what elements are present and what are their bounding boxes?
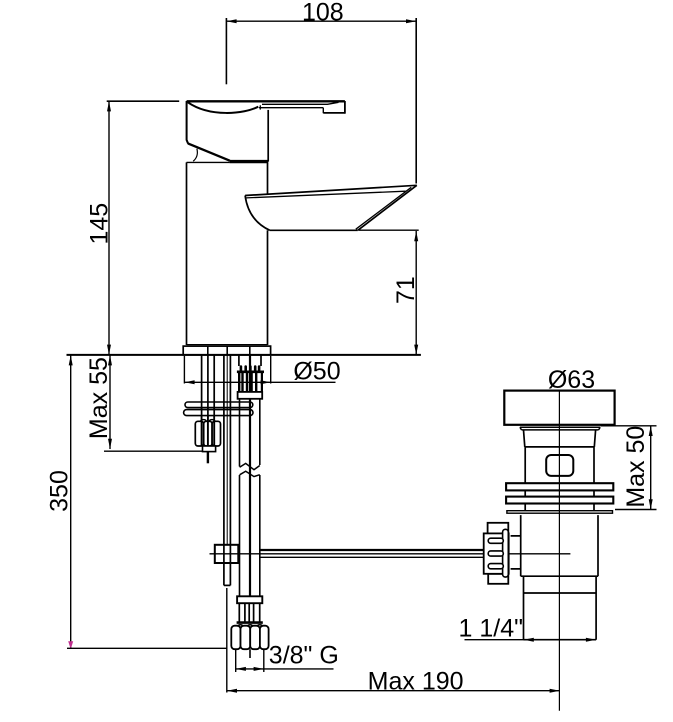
dimension diameter 50 right extension [270,356,272,384]
horseshoe washer capsule 2 [184,410,253,416]
dimension 3/8 G left extension [235,650,237,672]
pop-up vertical rod right line [229,355,231,544]
spout left curve [245,196,270,231]
mounting hex nut lobes [195,421,203,446]
faucet handle lever underside near line [259,107,323,109]
faucet handle lever tip tick [322,108,324,114]
rod A re-draw through washers [201,402,203,421]
thread shank bars [238,373,240,391]
knurled nut top rect [488,523,509,534]
svg-text:145: 145 [86,203,114,245]
spout bottom extension line [359,229,419,231]
hose break zigzag upper [240,463,260,469]
dimension 350 bottom arrow (magenta) [68,641,73,649]
hose braid lines [238,603,240,622]
faucet base flange [183,346,270,355]
svg-text:108: 108 [302,0,344,27]
faucet handle lever tip bottom [323,112,345,114]
supply hose stud upper lines [238,355,240,366]
faucet body left edge [186,162,188,345]
dimension 145 bottom arrow [107,345,111,355]
dimension 1 1/4 left arrow [524,638,534,642]
drain plate 1 [506,483,613,490]
dimension 108 right arrow [406,19,416,23]
knurled nut right capsule [503,529,509,577]
svg-text:1 1/4": 1 1/4" [459,614,523,642]
spout inner top line [246,191,405,198]
drain body edges between plates 2-3 [525,504,594,511]
spout inner diagonal [356,187,412,229]
dimension 108 right extension line [415,18,417,184]
rod lines through nut [201,422,203,446]
faucet handle lever top edge [187,100,345,102]
mounting hex nut lobe bumps [201,420,207,422]
dimension Max 50 bottom arrow [649,499,653,509]
faucet body top thin line [187,161,230,163]
lever underside tick at cap [259,105,261,109]
supply hose right line (with break gap) [259,399,261,465]
faucet handle lever underside far line [262,102,339,104]
hose break zigzag lower [240,471,260,476]
drain tailpipe [524,576,597,640]
knurled nut slot 1 [488,538,503,543]
base flange tick rod A [207,346,209,355]
pop-up rod lower segment [223,563,225,585]
hose hex nut lobes [231,626,240,650]
dimension Max 55 line [109,356,111,450]
dimension Max 50 line [650,426,652,510]
faucet handle cap concave curve [188,102,258,113]
collar below nut [203,446,216,452]
faucet body junction thick line [230,160,269,163]
dimension 3/8 G right arrow [254,667,264,671]
supply hose bold center line [249,355,251,596]
svg-text:Max 55: Max 55 [85,357,113,439]
horizontal pivot rod top line [260,549,483,551]
dimension diameter 50 left extension [183,356,185,384]
dimension 1 1/4 leader line [465,639,524,641]
drain lower body [521,515,598,576]
horseshoe washer capsule 1 [185,402,253,408]
dimension 145 top extension line [107,100,180,102]
dimension diameter 50 left arrow [184,380,194,384]
drain upper body [525,447,594,483]
knurled nut bottom rect [488,574,508,584]
dimension diameter 50 line [184,381,335,383]
dimension 1 1/4 right arrow [586,638,596,642]
hose ferrule [237,596,262,603]
rod A tail [207,452,209,464]
hose nut stub [249,649,251,658]
drain center line [558,391,560,711]
drain stem to knurled nut [511,536,521,569]
dimension 108 left extension line [225,18,227,84]
spout body fill [245,185,417,230]
thread flange bold line [237,370,264,373]
dimension diameter 50 right arrow [261,380,271,384]
thread crest bumps [240,367,243,371]
drain body square hole [546,455,573,476]
dimension 350 bottom extension line [67,647,227,649]
faucet handle hinge arc [193,149,197,162]
dimension 108 line [226,20,416,22]
knurled nut slot 3 [488,564,503,569]
dimension Max 190 right arrow [550,689,560,693]
faucet body right edge upper [267,163,269,195]
dimension Max 55 top arrow [108,355,112,365]
svg-text:3/8" G: 3/8" G [269,641,339,669]
dimension 71 top arrow [414,231,418,241]
horizontal rod center line [210,553,571,555]
drain neck [524,430,596,447]
drain collar [520,427,600,430]
faucet handle left edge [187,101,189,144]
dimension 145 line [108,101,110,355]
dimension Max 190 left arrow [227,689,237,693]
svg-text:71: 71 [392,276,420,304]
spout top edge [245,185,417,195]
dimension Max 190 left extension [226,588,228,693]
pop-up vertical rod center line [226,355,228,544]
svg-text:Max 190: Max 190 [368,667,464,695]
dimension 350 line [70,356,72,649]
dimension Max 50 bottom extension [615,509,657,511]
drain plate 2 [506,497,613,504]
dimension 3/8 G line [236,668,334,670]
dimension Max 55 bottom extension line [104,450,216,452]
base flange tick hose [249,346,251,355]
dimension 3/8 G left arrow [236,667,246,671]
pop-up rod clamp block [215,545,239,563]
horizontal pivot rod bottom line [260,556,483,558]
dimension 108 left arrow [226,19,236,23]
clamp rod lines through [223,545,225,563]
faucet handle bottom diagonal [188,143,230,160]
knurled nut mid rect [484,533,509,573]
drain body edges between plates 1-2 [525,490,594,496]
faucet body right edge lower [267,230,269,345]
dimension Max 50 top extension [601,425,657,427]
hose nut top bold bar [237,621,263,624]
dimension 71 line [415,231,417,355]
pop-up vertical rod left line [223,355,225,544]
svg-text:Ø63: Ø63 [548,366,595,394]
svg-text:350: 350 [46,470,74,512]
faucet handle lever right end [344,101,346,114]
dimension 3/8 G right extension [263,650,265,672]
countertop line [67,354,421,356]
drain flange [504,391,614,425]
dimension Max 50 top arrow [649,426,653,436]
faucet handle cap right edge [267,110,269,162]
dimension Max 190 line [227,690,560,692]
svg-text:Max 50: Max 50 [622,426,650,508]
threaded rod A lines [201,355,203,446]
washer under stud [238,392,263,399]
drain plate 3 thin [507,511,613,514]
spout bottom edge [270,229,358,231]
supply hose left line (with break gap) [239,399,241,467]
dimension Max 55 bottom arrow [108,439,112,449]
dimension 71 bottom arrow [414,345,418,355]
faucet body bottom line [187,344,268,346]
spout outer diagonal edge [358,185,417,230]
base flange tick pop-up rod [226,346,228,355]
knurled nut slot 2 [488,551,503,556]
dimension 350 top arrow [69,355,73,365]
hose nut lobe bumps [237,625,243,627]
dimension 145 top arrow [107,101,111,111]
svg-text:Ø50: Ø50 [293,358,340,386]
